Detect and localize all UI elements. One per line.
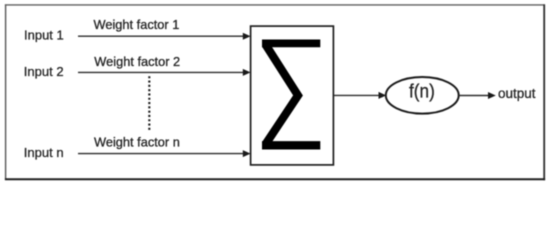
svg-text:Weight factor n: Weight factor n <box>94 135 180 150</box>
svg-text:Weight factor 2: Weight factor 2 <box>94 54 180 69</box>
svg-text:Input 1: Input 1 <box>24 28 64 43</box>
outer frame top <box>5 4 545 6</box>
sigma symbol top bar <box>262 40 320 48</box>
activation ellipse <box>386 77 459 114</box>
sigma symbol diagonals <box>266 45 299 145</box>
wire arrow f(n) to output <box>459 92 496 99</box>
wire arrow input 2 to summator <box>78 69 251 76</box>
wire arrow summator to f(n) <box>334 92 387 99</box>
wire arrow input n to summator <box>78 150 251 157</box>
svg-text:output: output <box>498 86 536 101</box>
outer frame left <box>5 4 7 180</box>
svg-text:Weight factor 1: Weight factor 1 <box>94 17 180 32</box>
svg-text:Input n: Input n <box>24 145 64 160</box>
outer frame bottom <box>5 178 545 180</box>
outer frame right <box>543 4 545 180</box>
sigma symbol bottom bar <box>262 141 320 149</box>
svg-text:Input 2: Input 2 <box>24 64 64 79</box>
dotted ellipsis line <box>148 76 150 131</box>
summator box <box>251 26 334 165</box>
wire arrow input 1 to summator <box>78 33 251 40</box>
svg-text:f(n): f(n) <box>409 81 435 103</box>
